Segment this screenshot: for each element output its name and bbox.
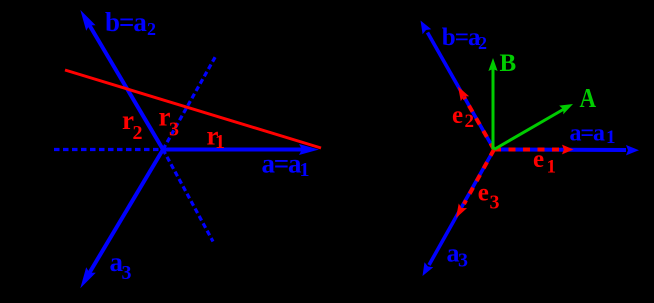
svg-text:A: A <box>580 83 597 113</box>
svg-text:b=a: b=a <box>442 24 481 51</box>
vector a3 (right) <box>423 150 495 277</box>
vector a1 (left) <box>163 144 319 155</box>
vector B (green vertical) <box>488 58 497 150</box>
svg-text:1: 1 <box>547 156 557 177</box>
svg-text:e: e <box>533 146 544 173</box>
svg-text:2: 2 <box>147 19 156 39</box>
svg-text:3: 3 <box>122 262 132 284</box>
svg-text:b=a: b=a <box>105 7 147 37</box>
dashed axis -a1 (left horizontal) <box>54 148 163 151</box>
svg-text:2: 2 <box>465 111 475 132</box>
svg-text:1: 1 <box>215 131 225 153</box>
vector a2 = b (right) <box>421 21 495 150</box>
svg-text:2: 2 <box>133 122 143 144</box>
dashed axis -a2 (down-right -60deg) <box>163 150 213 242</box>
svg-text:2: 2 <box>478 33 487 53</box>
basis vector e1 (red dashed over a1) <box>494 145 574 155</box>
svg-text:1: 1 <box>300 159 310 181</box>
basis vector e3 (red dashed over a3) <box>456 150 494 219</box>
svg-text:3: 3 <box>490 192 500 214</box>
svg-text:e: e <box>452 102 463 129</box>
svg-text:1: 1 <box>606 127 616 148</box>
svg-text:3: 3 <box>458 250 468 272</box>
dashed axis -a3 (up-right 60deg) <box>163 57 216 150</box>
svg-text:3: 3 <box>169 119 179 141</box>
vector a1 (right) <box>494 145 639 155</box>
red plane trace line <box>65 70 321 148</box>
svg-text:e: e <box>478 180 489 207</box>
vector A (green up-right) <box>494 104 573 150</box>
basis vector e2 (red dashed over a2) <box>458 87 494 150</box>
svg-text:a=a: a=a <box>570 120 605 146</box>
vector a3 (left) <box>80 150 163 289</box>
svg-text:a=a: a=a <box>262 148 302 178</box>
svg-text:B: B <box>500 50 517 77</box>
vector a2 = b (left) <box>80 10 163 150</box>
